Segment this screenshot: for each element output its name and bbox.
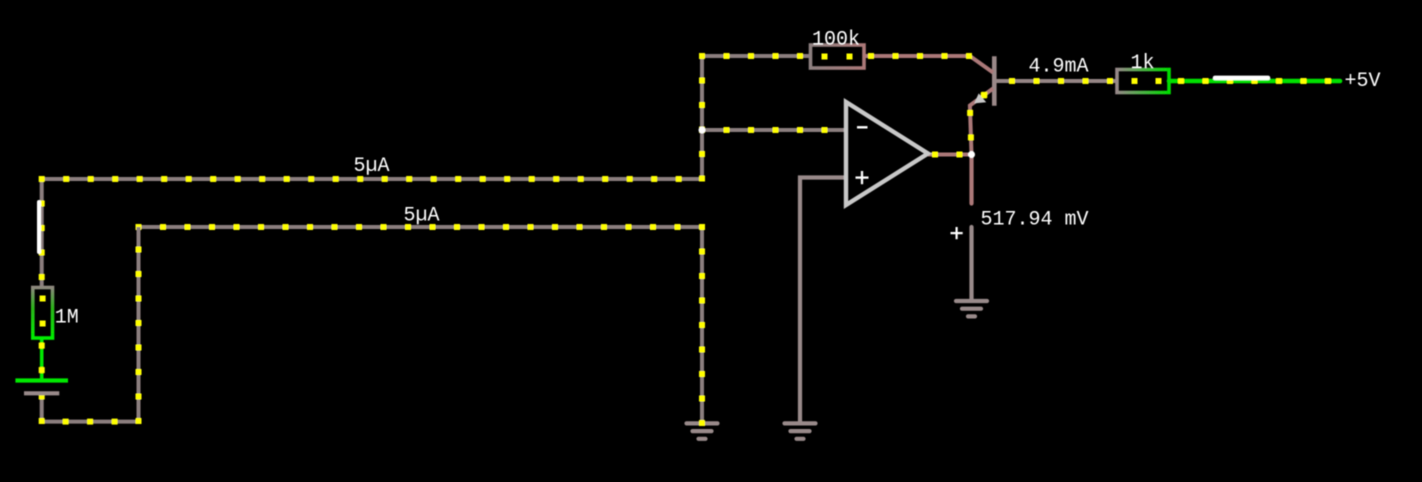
resistor R2 100k <box>811 45 865 68</box>
svg-text:5µA: 5µA <box>404 205 440 228</box>
node: feedback junction <box>699 127 706 134</box>
svg-text:1M: 1M <box>55 307 79 330</box>
current dots on collector wire <box>868 53 972 59</box>
current dots on wire A <box>39 176 682 280</box>
current dots on bottom return wire <box>39 247 142 425</box>
svg-text:100k: 100k <box>812 29 860 52</box>
svg-text:5µA: 5µA <box>354 155 390 178</box>
wire: return wire B (5uA) to ground <box>139 227 703 423</box>
wire: R3 to +5V supply (green) <box>1169 79 1340 84</box>
wire: source negative return (bottom) <box>42 227 139 422</box>
current dots on wire B <box>136 224 706 426</box>
wire: R1 bottom to source + (green) <box>40 338 44 379</box>
probe ground <box>956 301 987 316</box>
wire: transistor base to R3 (4.9mA) <box>996 79 1117 83</box>
node: output junction <box>968 151 975 158</box>
transistor Q1 (PNP) base bar <box>992 56 997 105</box>
probe top lead <box>969 155 973 204</box>
probe + sign <box>951 227 963 239</box>
wire: R2 right to transistor collector <box>864 56 993 73</box>
svg-text:+5V: +5V <box>1345 70 1381 93</box>
current dots on inverting input wire <box>699 127 828 133</box>
probe bottom lead <box>969 227 973 299</box>
op-amp U1 <box>846 102 928 205</box>
wire: input wire A (5uA) from feedback node to switch S1/1M <box>42 179 702 288</box>
wire: op-amp output to node <box>928 153 972 157</box>
svg-text:1k: 1k <box>1131 52 1155 75</box>
resistor R1 1M <box>33 288 53 339</box>
current dots on R1-source wire <box>39 343 45 374</box>
svg-text:4.9mA: 4.9mA <box>1029 56 1089 79</box>
current dots on supply wire <box>1178 78 1331 84</box>
current dot over emitter arrow <box>981 92 987 98</box>
current dots on emitter wire <box>967 92 987 140</box>
current dots on output wire <box>932 152 963 158</box>
wire: op-amp non-inverting input to ground <box>800 178 846 422</box>
current dots on feedback vertical <box>699 53 803 182</box>
ground (wire B return) <box>687 423 718 438</box>
transistor Q1 emitter arrow <box>974 93 986 103</box>
svg-text:517.94 mV: 517.94 mV <box>981 209 1089 232</box>
voltage source V1 - plate (short, gray) <box>24 391 59 395</box>
wire: transistor emitter down to output node <box>970 89 993 155</box>
current dots on base wire <box>1009 78 1113 84</box>
wire: op-amp inverting input <box>702 128 846 132</box>
voltage source V1 + plate (long, green) <box>15 378 68 382</box>
switch S1 (closed, left branch) <box>37 202 41 252</box>
ground (op-amp + input) <box>785 423 816 438</box>
wire: feedback node vertical and top wire to R2 left <box>702 56 811 179</box>
resistor R3 1k <box>1117 70 1169 93</box>
switch S2 (closed, +5V supply) <box>1215 76 1268 81</box>
